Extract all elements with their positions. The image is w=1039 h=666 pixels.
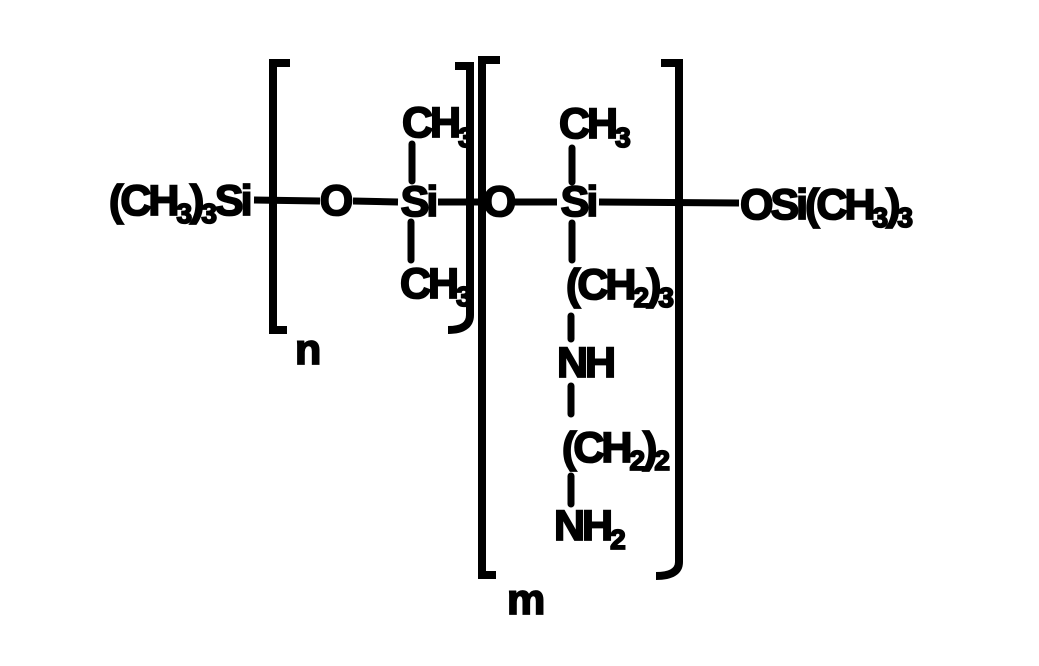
wire bond to NH [568, 316, 575, 339]
wire bond Si1 up [409, 144, 416, 181]
bracket n-left [273, 63, 290, 330]
wire bond NH down [568, 386, 575, 414]
svg-text:n: n [295, 326, 319, 374]
svg-text:OSi(CH3)3: OSi(CH3)3 [740, 181, 912, 233]
svg-text:Si: Si [561, 178, 596, 226]
svg-text:NH: NH [557, 339, 614, 387]
svg-text:O: O [320, 177, 352, 225]
bracket n-right [448, 66, 470, 330]
wire bond O1 to Si1 [353, 201, 398, 202]
wire bond Si1 down [408, 222, 415, 260]
wire bond down [568, 476, 575, 504]
wire bond Si2 to end group [599, 202, 739, 203]
bracket m-left [482, 60, 500, 575]
wire bond Si2 down [569, 223, 576, 260]
wire bond O2 to Si2 [513, 199, 557, 206]
wire bond Si1 to O2 [438, 199, 487, 206]
svg-text:(CH2)2: (CH2)2 [562, 424, 669, 476]
wire bond Si2 up [569, 148, 576, 182]
wire bond Si to O1 [254, 200, 320, 201]
svg-text:m: m [507, 576, 543, 624]
svg-text:O: O [483, 178, 515, 226]
bracket m-right [656, 63, 679, 576]
svg-text:Si: Si [401, 178, 436, 226]
svg-text:(CH2)3: (CH2)3 [566, 261, 673, 313]
